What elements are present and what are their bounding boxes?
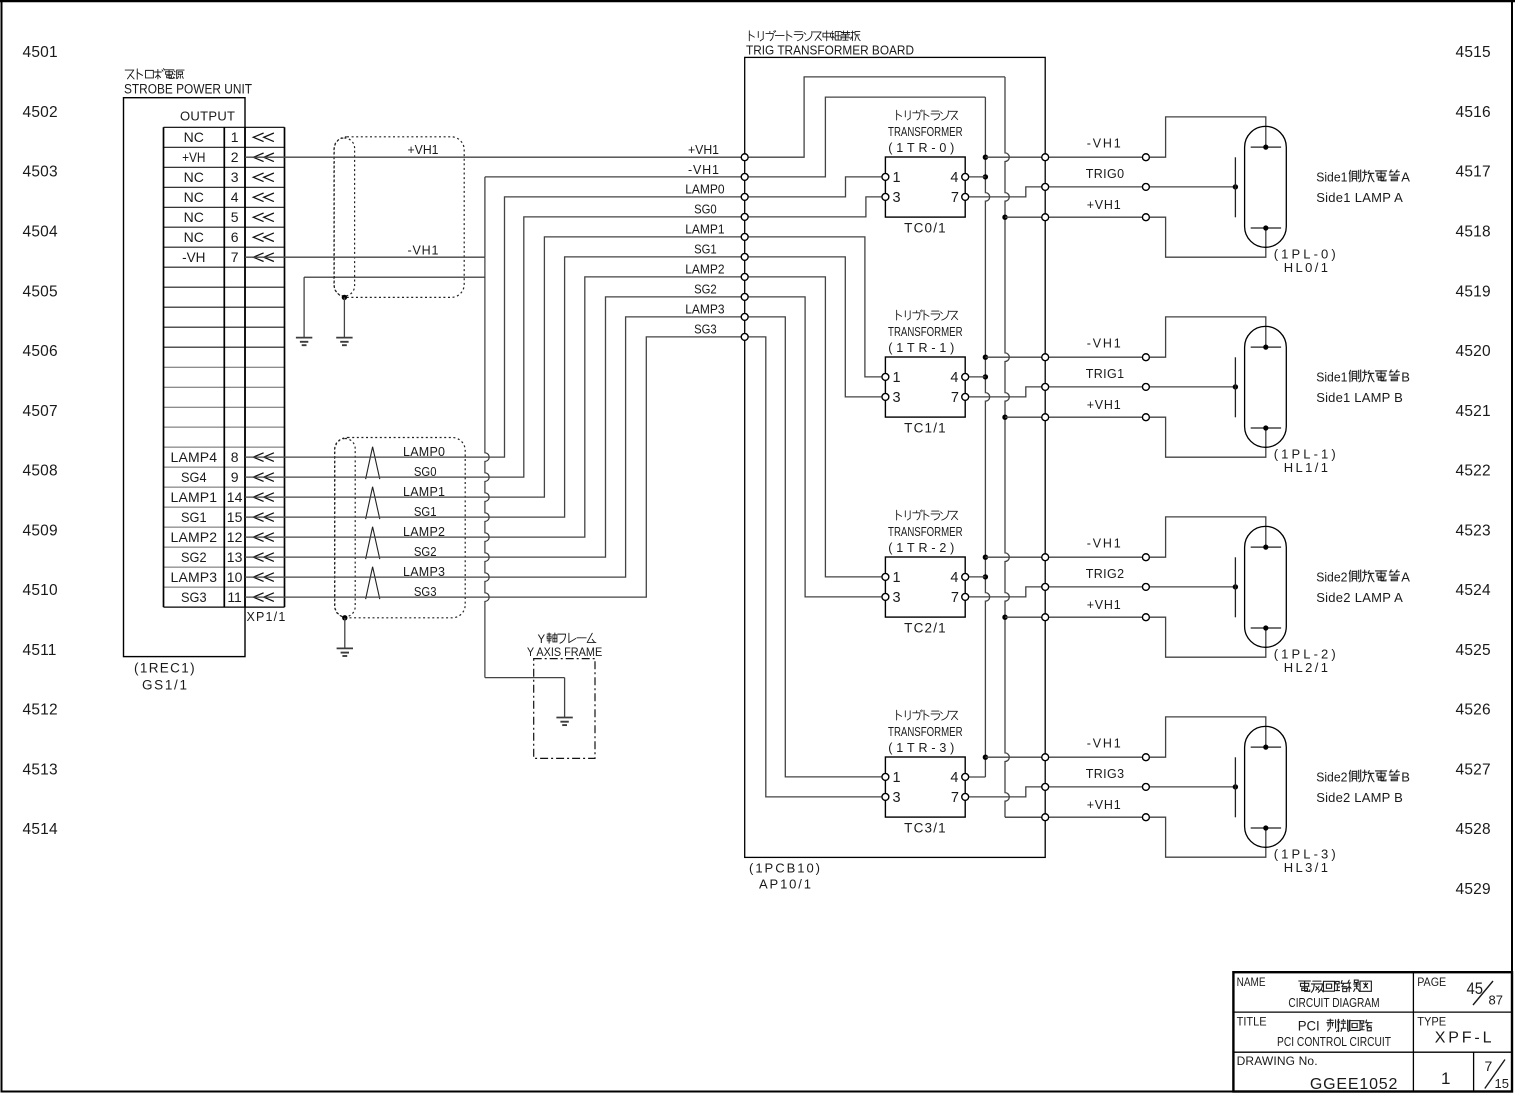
terminal circles overlay	[741, 154, 1149, 821]
svg-text:4510: 4510	[23, 582, 58, 599]
svg-text:4: 4	[950, 570, 958, 586]
svg-text:-VH1: -VH1	[1087, 737, 1121, 751]
svg-text:4526: 4526	[1456, 702, 1491, 719]
title block PAGE cell	[1417, 977, 1503, 1008]
svg-text:GS1/1: GS1/1	[142, 678, 187, 693]
svg-text:Side2: Side2	[1316, 770, 1347, 785]
wire TRIG0 from TC0/1 pin 7 to lamp trigger	[965, 184, 1238, 197]
wire TC1/1 pin 4 to -VH1 bus	[965, 376, 985, 378]
svg-text:15: 15	[227, 509, 243, 525]
svg-text:1: 1	[893, 370, 901, 386]
svg-text:TC2/1: TC2/1	[904, 621, 946, 636]
svg-text:NC: NC	[184, 169, 204, 185]
svg-text:-VH1: -VH1	[1087, 337, 1121, 351]
wire LAMP0 from XP1/1 to board	[245, 197, 745, 457]
svg-text:TRIG2: TRIG2	[1086, 567, 1124, 581]
svg-text:4513: 4513	[23, 761, 58, 778]
wire +VH1 to lamp HL0/1	[1005, 214, 1266, 257]
svg-text:TRANSFORMER: TRANSFORMER	[888, 725, 963, 739]
svg-text:4519: 4519	[1456, 283, 1491, 300]
wire SG1 to TC1/1 pin 3	[745, 257, 886, 397]
svg-text:Y AXIS FRAME: Y AXIS FRAME	[527, 645, 602, 659]
svg-text:NC: NC	[184, 209, 204, 225]
svg-text:TRANSFORMER: TRANSFORMER	[888, 325, 963, 339]
svg-text:4514: 4514	[23, 821, 58, 838]
svg-text:AP10/1: AP10/1	[759, 877, 811, 892]
label トリガートランス中継基板 TRIG TRANSFORMER BOARD	[746, 31, 914, 58]
ground (signal cable shield)	[337, 615, 353, 656]
label (1PL-3) HL3/1	[1274, 847, 1336, 875]
wire TRIG2 from TC2/1 pin 7 to lamp trigger	[965, 584, 1238, 597]
svg-text:8: 8	[231, 449, 239, 465]
svg-text:1: 1	[1441, 1069, 1450, 1088]
svg-text:4515: 4515	[1456, 44, 1491, 61]
svg-text:A: A	[1401, 570, 1410, 585]
svg-text:SG2: SG2	[181, 549, 207, 565]
XP1/1 pin 5 (NC)	[184, 209, 274, 225]
board input terminals	[741, 154, 748, 340]
twisted pair mark 3	[366, 567, 380, 599]
svg-text:4505: 4505	[23, 283, 58, 300]
wire -VH1 to lamp HL3/1	[985, 717, 1265, 761]
svg-text:(1PCB10): (1PCB10)	[749, 861, 820, 876]
lamp HL3/1 (1PL-3) flash tube	[1235, 726, 1286, 847]
label (1REC1) GS1/1	[134, 661, 195, 693]
XP1/1 pin 15 (SG1)	[181, 509, 274, 525]
transformer TC1/1 (1TR-1)	[882, 310, 969, 436]
svg-text:TRANSFORMER: TRANSFORMER	[888, 125, 963, 139]
XP1/1 pin 3 (NC)	[184, 169, 274, 185]
svg-text:Side1 LAMP A: Side1 LAMP A	[1316, 190, 1403, 205]
svg-text:+VH1: +VH1	[1087, 198, 1121, 212]
Y axis frame box	[534, 659, 595, 759]
svg-text:4525: 4525	[1456, 642, 1491, 659]
svg-text:4529: 4529	[1456, 881, 1491, 898]
svg-text:4521: 4521	[1456, 403, 1491, 420]
svg-text:4523: 4523	[1456, 522, 1491, 539]
svg-text:7: 7	[951, 790, 959, 806]
svg-text:SG0: SG0	[694, 203, 717, 217]
svg-text:87: 87	[1489, 992, 1503, 1007]
XP1/1 pin 6 (NC)	[184, 229, 274, 245]
title block DRAWING No. cell	[1237, 1054, 1509, 1093]
svg-text:4520: 4520	[1456, 343, 1491, 360]
svg-text:HL2/1: HL2/1	[1284, 660, 1328, 675]
svg-text:1: 1	[893, 770, 901, 786]
svg-text:(1TR-3): (1TR-3)	[888, 741, 954, 755]
svg-text:3: 3	[893, 190, 901, 206]
svg-text:4507: 4507	[23, 403, 58, 420]
svg-text:Side2: Side2	[1316, 570, 1347, 585]
svg-text:SG2: SG2	[694, 283, 717, 297]
svg-text:4: 4	[950, 370, 958, 386]
svg-text:LAMP3: LAMP3	[171, 569, 218, 585]
wire +VH1 to lamp HL2/1	[1005, 614, 1266, 657]
svg-text:Y: Y	[538, 634, 546, 646]
svg-text:OUTPUT: OUTPUT	[180, 109, 235, 124]
wire TC0/1 pin 4 to -VH1 bus	[965, 176, 985, 178]
svg-text:+VH1: +VH1	[408, 143, 439, 157]
label (1PL-0) HL0/1	[1274, 247, 1336, 275]
wire SG3 to TC3/1 pin 3	[745, 337, 886, 797]
transformer TC3/1 (1TR-3)	[882, 710, 969, 836]
title block NAME cell	[1237, 977, 1380, 1010]
svg-text:4: 4	[950, 170, 958, 186]
wire +VH1 to lamp HL1/1	[1005, 414, 1266, 457]
svg-text:DRAWING No.: DRAWING No.	[1237, 1054, 1318, 1068]
XP1/1 pin 2 (+VH)	[182, 149, 274, 165]
wire LAMP1 to TC1/1 pin 1	[745, 237, 886, 377]
svg-text:PCI: PCI	[1298, 1019, 1320, 1034]
svg-text:4511: 4511	[23, 642, 57, 659]
wire SG2 to TC2/1 pin 3	[745, 297, 886, 597]
svg-text:+VH1: +VH1	[1087, 398, 1121, 412]
label XP1/1	[247, 610, 286, 624]
bus -VH1 inside board	[745, 97, 990, 777]
wire TRIG1 from TC1/1 pin 7 to lamp trigger	[965, 384, 1238, 397]
svg-text:3: 3	[231, 169, 239, 185]
svg-text:HL0/1: HL0/1	[1284, 260, 1328, 275]
svg-text:5: 5	[231, 209, 239, 225]
svg-text:B: B	[1401, 770, 1410, 785]
svg-text:-VH1: -VH1	[408, 243, 439, 257]
label (1PL-1) HL1/1	[1274, 447, 1336, 475]
svg-text:TC0/1: TC0/1	[904, 221, 946, 236]
svg-text:PCI CONTROL CIRCUIT: PCI CONTROL CIRCUIT	[1277, 1034, 1391, 1049]
wire +VH1 to lamp HL3/1	[1005, 814, 1266, 857]
svg-text:-VH: -VH	[182, 249, 205, 265]
svg-text:NAME: NAME	[1237, 977, 1266, 989]
svg-text:STROBE POWER UNIT: STROBE POWER UNIT	[124, 82, 252, 97]
svg-text:XPF-L: XPF-L	[1435, 1030, 1492, 1047]
wire -VH1 to lamp HL2/1	[985, 517, 1265, 561]
transformer TC0/1 (1TR-0)	[882, 110, 969, 236]
cable shield (signal pairs) dotted box	[335, 438, 466, 618]
svg-text:4527: 4527	[1456, 761, 1491, 778]
svg-text:+VH1: +VH1	[1087, 798, 1121, 812]
XP1/1 pin 13 (SG2)	[181, 549, 274, 565]
zone labels left column 4501-4514	[23, 44, 58, 838]
svg-text:12: 12	[227, 529, 243, 545]
svg-text:NC: NC	[184, 129, 204, 145]
svg-text:LAMP2: LAMP2	[171, 529, 218, 545]
svg-text:TRIG TRANSFORMER BOARD: TRIG TRANSFORMER BOARD	[746, 43, 914, 58]
svg-text:3: 3	[893, 590, 901, 606]
svg-text:7: 7	[951, 390, 959, 406]
svg-text:13: 13	[227, 549, 243, 565]
svg-text:-VH1: -VH1	[1087, 537, 1121, 551]
svg-text:2: 2	[231, 149, 239, 165]
strobe power unit GS1/1 (1REC1) outline	[124, 98, 246, 657]
svg-text:SG3: SG3	[694, 323, 717, 337]
svg-text:Side2 LAMP A: Side2 LAMP A	[1316, 590, 1403, 605]
wire -VH1 to lamp HL1/1	[985, 317, 1265, 361]
svg-text:LAMP4: LAMP4	[171, 449, 218, 465]
XP1/1 pin 7 (-VH)	[182, 249, 274, 265]
wire SG0 to TC0/1 pin 3	[745, 197, 886, 217]
title block	[1233, 972, 1512, 1091]
svg-text:4518: 4518	[1456, 224, 1491, 241]
label ストロボ電源 STROBE POWER UNIT	[124, 69, 252, 97]
svg-text:LAMP0: LAMP0	[685, 183, 724, 197]
wire SG0 from XP1/1 to board	[245, 217, 745, 477]
svg-text:4501: 4501	[23, 44, 58, 61]
twisted pair mark 1	[366, 487, 380, 519]
wire -VH / -VH1 from XP1/1 pin 7 to board (tied to shield riser)	[245, 177, 745, 257]
svg-text:(1REC1): (1REC1)	[134, 661, 195, 676]
svg-text:(1TR-0): (1TR-0)	[888, 141, 954, 155]
svg-text:LAMP1: LAMP1	[685, 223, 724, 237]
XP1/1 pin 8 (LAMP4)	[171, 449, 274, 465]
lamp HL1/1 (1PL-1) flash tube	[1235, 326, 1286, 447]
wire LAMP0 to TC0/1 pin 1	[745, 177, 886, 197]
XP1/1 pin 12 (LAMP2)	[171, 529, 274, 545]
svg-text:4512: 4512	[23, 702, 58, 719]
svg-text:4524: 4524	[1456, 582, 1491, 599]
wire LAMP2 from XP1/1 to board	[245, 277, 745, 537]
svg-text:SG1: SG1	[694, 243, 717, 257]
wire LAMP1 from XP1/1 to board	[245, 237, 745, 497]
svg-text:HL3/1: HL3/1	[1284, 860, 1328, 875]
svg-text:4516: 4516	[1456, 104, 1491, 121]
ground (power cable shield)	[336, 295, 352, 346]
label Side1 LAMP A	[1316, 170, 1410, 205]
XP1/1 pin 14 (LAMP1)	[171, 489, 274, 505]
wire SG2 from XP1/1 to board	[245, 297, 745, 557]
svg-text:HL1/1: HL1/1	[1284, 460, 1328, 475]
zone labels right column 4515-4529	[1456, 44, 1491, 898]
svg-text:4503: 4503	[23, 164, 58, 181]
svg-text:Side1: Side1	[1316, 370, 1347, 385]
bus +VH1 inside board	[745, 77, 1045, 817]
label Y軸フレーム Y AXIS FRAME	[527, 633, 602, 659]
svg-text:4509: 4509	[23, 522, 58, 539]
svg-text:-VH1: -VH1	[688, 163, 719, 177]
wire SG3 from XP1/1 to board	[245, 337, 745, 597]
XP1/1 pin 11 (SG3)	[181, 589, 274, 605]
wire SG1 from XP1/1 to board	[245, 257, 745, 517]
svg-text:GGEE1052: GGEE1052	[1310, 1076, 1398, 1093]
title block TYPE cell	[1417, 1016, 1491, 1046]
svg-text:7: 7	[231, 249, 239, 265]
svg-text:TRIG1: TRIG1	[1086, 367, 1124, 381]
svg-text:4517: 4517	[1456, 164, 1491, 181]
svg-text:4502: 4502	[23, 104, 58, 121]
svg-text:TITLE: TITLE	[1237, 1016, 1267, 1028]
twisted pair mark 2	[366, 527, 380, 559]
XP1/1 pin 4 (NC)	[184, 189, 274, 205]
svg-text:1: 1	[893, 170, 901, 186]
svg-text:14: 14	[227, 489, 243, 505]
svg-text:1: 1	[893, 570, 901, 586]
svg-text:3: 3	[893, 390, 901, 406]
svg-text:TYPE: TYPE	[1417, 1016, 1446, 1028]
svg-text:A: A	[1401, 170, 1410, 185]
svg-text:10: 10	[227, 569, 243, 585]
connector XP1/1 table grid	[164, 147, 285, 347]
svg-text:4: 4	[950, 770, 958, 786]
svg-text:15: 15	[1495, 1076, 1509, 1091]
svg-text:4522: 4522	[1456, 463, 1491, 480]
svg-text:Side1: Side1	[1316, 170, 1347, 185]
svg-text:7: 7	[951, 590, 959, 606]
svg-text:(1TR-2): (1TR-2)	[888, 541, 954, 555]
ground (Y axis frame)	[556, 718, 572, 726]
wire -VH1 to lamp HL0/1	[985, 117, 1265, 161]
svg-text:6: 6	[231, 229, 239, 245]
svg-text:4: 4	[231, 189, 239, 205]
wire LAMP2 to TC2/1 pin 1	[745, 277, 886, 577]
svg-text:TC1/1: TC1/1	[904, 421, 946, 436]
svg-text:+VH: +VH	[182, 149, 205, 165]
svg-text:+VH1: +VH1	[1087, 598, 1121, 612]
trig transformer board AP10/1 (1PCB10) outline	[745, 57, 1045, 857]
svg-text:4504: 4504	[23, 224, 58, 241]
lamp HL2/1 (1PL-2) flash tube	[1235, 526, 1286, 647]
svg-text:1: 1	[231, 129, 239, 145]
transformer TC2/1 (1TR-2)	[882, 510, 969, 636]
label Side2 LAMP B	[1316, 770, 1410, 805]
svg-text:7: 7	[1485, 1058, 1493, 1074]
svg-text:+VH1: +VH1	[688, 143, 719, 157]
lamp HL0/1 (1PL-0) flash tube	[1235, 126, 1286, 247]
svg-text:XP1/1: XP1/1	[247, 610, 286, 624]
cable shield (power pair) dotted box	[334, 137, 464, 298]
label Side2 LAMP A	[1316, 570, 1410, 605]
svg-text:NC: NC	[184, 229, 204, 245]
svg-text:4506: 4506	[23, 343, 58, 360]
svg-text:TC3/1: TC3/1	[904, 821, 946, 836]
label (1PCB10) AP10/1	[749, 861, 820, 892]
svg-text:LAMP1: LAMP1	[171, 489, 218, 505]
svg-text:LAMP3: LAMP3	[685, 303, 724, 317]
wire TC2/1 pin 4 to -VH1 bus	[965, 576, 985, 578]
svg-text:4508: 4508	[23, 463, 58, 480]
svg-text:(1TR-1): (1TR-1)	[888, 341, 954, 355]
title block TITLE cell	[1237, 1016, 1392, 1049]
svg-text:SG1: SG1	[181, 509, 207, 525]
svg-text:7: 7	[951, 190, 959, 206]
wire TRIG3 from TC3/1 pin 7 to lamp trigger	[965, 784, 1238, 797]
svg-text:TRIG3: TRIG3	[1086, 767, 1124, 781]
XP1/1 pin 10 (LAMP3)	[171, 569, 274, 585]
wire LAMP3 from XP1/1 to board	[245, 317, 745, 577]
label (1PL-2) HL2/1	[1274, 647, 1336, 675]
wire +VH / +VH1 from XP1/1 pin 2 to board	[245, 156, 745, 158]
ground (left of cable)	[296, 277, 312, 345]
svg-text:-VH1: -VH1	[1087, 137, 1121, 151]
svg-text:TRANSFORMER: TRANSFORMER	[888, 525, 963, 539]
label Side1 LAMP B	[1316, 370, 1410, 405]
XP1/1 pin 9 (SG4)	[181, 469, 274, 485]
label OUTPUT	[180, 109, 235, 124]
svg-text:Side1 LAMP B: Side1 LAMP B	[1316, 390, 1403, 405]
svg-text:SG3: SG3	[181, 589, 207, 605]
svg-text:9: 9	[231, 469, 239, 485]
svg-text:3: 3	[893, 790, 901, 806]
twisted pair mark 0	[366, 447, 380, 479]
svg-text:TRIG0: TRIG0	[1086, 167, 1124, 181]
shield / frame ground riser with hops	[304, 257, 564, 717]
svg-text:NC: NC	[184, 189, 204, 205]
svg-text:B: B	[1401, 370, 1410, 385]
svg-text:PAGE: PAGE	[1417, 977, 1446, 989]
svg-text:11: 11	[227, 589, 242, 605]
svg-text:LAMP2: LAMP2	[685, 263, 724, 277]
svg-text:SG4: SG4	[181, 469, 207, 485]
svg-text:Side2 LAMP B: Side2 LAMP B	[1316, 790, 1403, 805]
svg-text:CIRCUIT DIAGRAM: CIRCUIT DIAGRAM	[1288, 995, 1379, 1010]
XP1/1 pin 1 (NC)	[184, 129, 274, 145]
wire LAMP3 to TC3/1 pin 1	[745, 317, 886, 777]
svg-text:4528: 4528	[1456, 821, 1491, 838]
